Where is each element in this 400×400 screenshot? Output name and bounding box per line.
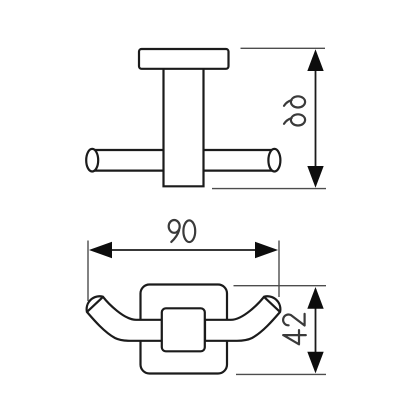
dimension line 90	[92, 249, 275, 251]
bar right end cap	[268, 149, 280, 172]
arrowhead up (66)	[307, 49, 323, 71]
wall plate of top view	[139, 49, 229, 69]
stem (vertical post) of top view	[164, 68, 204, 186]
arrowhead right (90)	[255, 242, 278, 258]
arrowhead down (66)	[307, 166, 323, 188]
label 90: digit 0	[183, 220, 195, 242]
label 66: digit 6 (second)	[284, 96, 305, 107]
extension line bottom (42)	[236, 373, 326, 375]
wall plate of front view	[141, 285, 228, 374]
arrowhead down (42)	[307, 352, 323, 374]
extension line top (66)	[241, 47, 326, 49]
arrowhead left (90)	[89, 242, 112, 258]
right hook arm	[205, 296, 280, 341]
extension line left (90)	[87, 241, 89, 302]
dimension line 42	[315, 289, 317, 371]
hook post square of front view	[162, 308, 205, 351]
dimension line 66	[315, 52, 317, 185]
extension line right (90)	[278, 241, 280, 298]
extension line bottom (66)	[212, 188, 326, 190]
bar left end cap	[86, 149, 98, 172]
left hook cap edge	[88, 297, 103, 311]
horizontal bar (cylinder) of top view	[92, 150, 274, 171]
arrowhead up (42)	[307, 287, 323, 309]
right hook cap edge	[264, 297, 279, 311]
extension line top (42)	[234, 285, 327, 287]
label 42: digit 4	[283, 330, 306, 344]
label 42: digit 2	[283, 314, 304, 326]
label 90: digit 9	[169, 220, 180, 242]
label 66: digit 6 (first)	[284, 114, 305, 125]
left hook arm	[87, 296, 162, 341]
